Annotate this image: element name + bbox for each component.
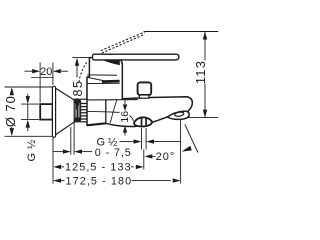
node dark band on body	[102, 80, 120, 83]
node aerator	[167, 111, 189, 119]
node handle wedge	[103, 60, 120, 65]
wire chamfer diagonal	[87, 77, 103, 80]
svg-text:113: 113	[193, 60, 208, 84]
wire aerator extension line down	[180, 118, 182, 184]
wire bottom extension line from spout tip	[189, 117, 219, 119]
wire raised handle dashed outline	[98, 34, 145, 54]
svg-text:20: 20	[40, 66, 52, 78]
escutcheon rim	[52, 86, 55, 137]
wire spout base fillet	[110, 100, 117, 123]
svg-text:85: 85	[71, 80, 85, 97]
handle lever	[93, 54, 179, 60]
node 113 dimension line	[204, 32, 206, 61]
wire internal line y=99.8	[87, 99, 138, 101]
wire internal line y=111.6 spout upper contour	[87, 111, 134, 121]
node 172,5-180 dimension	[53, 178, 61, 182]
faucet body and spout silhouette	[87, 58, 192, 127]
escutcheon cone	[56, 88, 76, 135]
wire top extension line from raised handle tip	[144, 31, 219, 33]
wire internal line y=83.4	[88, 82, 120, 84]
node diverter knob	[134, 117, 152, 126]
node 16 dimension	[124, 100, 126, 104]
wire spout-body joint	[105, 100, 107, 123]
node shower hose box	[138, 82, 152, 95]
wire extension lines from diverter knob	[141, 128, 143, 150]
svg-text:16: 16	[119, 111, 131, 123]
node 125,5-133 dimension	[53, 165, 61, 169]
union nut	[74, 99, 87, 122]
svg-text:20°: 20°	[156, 151, 176, 163]
svg-text:125,5 - 133: 125,5 - 133	[65, 162, 132, 174]
svg-text:G ½: G ½	[97, 136, 118, 148]
node G half thread dimension (left)	[21, 103, 39, 105]
wire slanted aerator axis line	[185, 124, 198, 152]
node 0-7,5 dimension	[53, 151, 63, 153]
node 20 dimension (thread stick-out)	[39, 63, 41, 103]
wire extension lines from escutcheon cone for 0-7.5	[70, 127, 72, 155]
node 85 down-arrow over nut	[75, 102, 79, 110]
node 20 degree annotation	[144, 154, 152, 158]
wire short reference line y 77.5	[31, 77, 53, 79]
wire body bottom thick edge	[87, 123, 106, 125]
node 85 dimension	[73, 57, 90, 59]
node diameter 70 dimension	[5, 86, 53, 88]
wire wall plane extension below escutcheon	[52, 137, 54, 184]
svg-text:Ø 70: Ø 70	[3, 95, 18, 127]
wire internal contour line y=75	[87, 74, 117, 76]
node knob dimension line	[120, 141, 134, 143]
svg-text:0 - 7,5: 0 - 7,5	[95, 147, 132, 159]
svg-text:172,5 - 180: 172,5 - 180	[66, 175, 133, 187]
nipple G half thread	[40, 104, 52, 120]
svg-text:G ½: G ½	[26, 139, 38, 161]
